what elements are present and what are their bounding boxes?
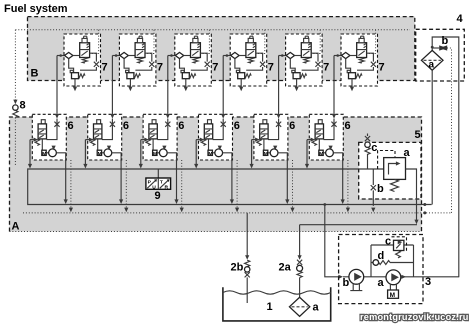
svg-text:remontgruzovik.ucoz.ru: remontgruzovik.ucoz.ru xyxy=(360,312,469,322)
svg-text:R: R xyxy=(165,185,169,191)
svg-text:T: T xyxy=(160,180,163,186)
svg-text:M: M xyxy=(390,292,395,299)
svg-text:B: B xyxy=(31,68,39,80)
svg-text:b: b xyxy=(442,35,449,47)
svg-text:1: 1 xyxy=(267,301,273,313)
svg-text:4: 4 xyxy=(457,13,464,25)
svg-text:a: a xyxy=(429,60,435,71)
svg-text:5: 5 xyxy=(415,129,421,141)
svg-text:Fuel system: Fuel system xyxy=(4,3,68,15)
svg-text:a: a xyxy=(378,277,385,289)
svg-text:A: A xyxy=(12,221,20,233)
svg-text:a: a xyxy=(404,147,411,159)
svg-text:c: c xyxy=(385,236,391,248)
svg-text:2b: 2b xyxy=(231,262,244,274)
svg-text:b: b xyxy=(343,277,350,289)
svg-text:2a: 2a xyxy=(279,262,292,274)
svg-text:c: c xyxy=(371,142,377,154)
svg-text:b: b xyxy=(377,183,384,195)
svg-text:8: 8 xyxy=(20,100,26,112)
svg-text:3: 3 xyxy=(425,276,431,288)
svg-text:9: 9 xyxy=(155,190,161,202)
svg-text:d: d xyxy=(378,250,385,262)
svg-text:a: a xyxy=(313,302,320,314)
